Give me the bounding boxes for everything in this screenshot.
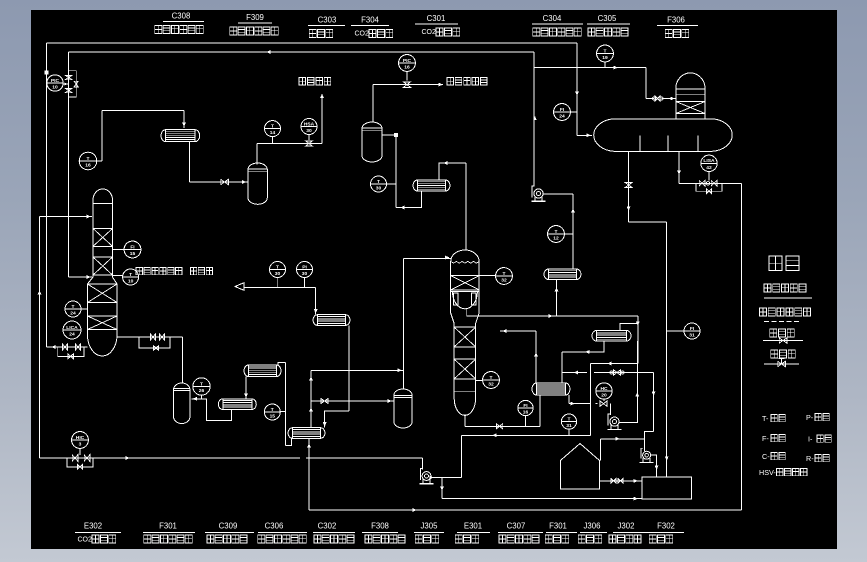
- label F304: [351, 15, 393, 37]
- instrument T-14: [265, 121, 281, 144]
- valve HC-20: [598, 401, 611, 406]
- wire drum drain right: [677, 151, 741, 193]
- svg-text:FI: FI: [523, 403, 528, 409]
- wire to pump J306: [610, 404, 612, 415]
- instrument PIC-10: [47, 75, 69, 91]
- svg-text:24: 24: [69, 332, 75, 338]
- instrument PIC-16: [399, 55, 416, 81]
- vessel F309: [248, 163, 267, 204]
- column E301 packing X2: [454, 327, 475, 347]
- label F301: [143, 521, 195, 543]
- wire E302 overhead: [102, 111, 186, 162]
- instrument FI-15: [113, 241, 141, 258]
- wire E301 feed: [404, 256, 451, 260]
- label E302: [75, 521, 121, 543]
- svg-text:E302: E302: [84, 521, 102, 530]
- instrument T-12: [548, 226, 573, 243]
- wire C302 inlet: [309, 370, 313, 427]
- svg-text:30: 30: [275, 271, 281, 277]
- svg-text:24: 24: [70, 311, 76, 317]
- svg-text:C305: C305: [598, 14, 617, 23]
- svg-text:J302: J302: [618, 521, 635, 530]
- wire C307 out: [569, 395, 598, 405]
- svg-text:12: 12: [553, 236, 559, 242]
- svg-text:3: 3: [79, 442, 82, 448]
- tank F302: [642, 477, 692, 499]
- column E302 packing X4: [88, 316, 118, 330]
- legend C-ctrl: [762, 452, 785, 461]
- instrument T-30b: [270, 262, 286, 288]
- svg-text:C308: C308: [172, 11, 191, 20]
- wire C305x drain: [562, 341, 604, 383]
- wire E302 rich solution: [117, 334, 182, 383]
- wire J302 discharge: [651, 455, 659, 477]
- wire J306 discharge: [619, 341, 639, 422]
- instrument T-30: [371, 176, 397, 192]
- label C304: [532, 14, 583, 36]
- svg-text:PI: PI: [302, 264, 307, 270]
- wire drum drain left: [625, 151, 669, 477]
- svg-text:F302: F302: [657, 521, 675, 530]
- pump J302: [640, 448, 654, 462]
- column F306 top: [676, 73, 705, 119]
- wire E301 bottoms stem: [464, 414, 466, 426]
- wire JA discharge: [543, 194, 575, 269]
- label F301: [545, 521, 577, 543]
- legend HSV: [759, 468, 807, 477]
- svg-text:T: T: [72, 304, 75, 310]
- svg-text:R-: R-: [806, 454, 814, 463]
- svg-text:42: 42: [706, 165, 712, 171]
- wire to vessel side: [311, 399, 394, 404]
- wire top header 1: [47, 42, 577, 44]
- wire flash top feed: [646, 68, 676, 102]
- wire J302 feed: [644, 439, 646, 451]
- wire E302 bottoms valves: [47, 344, 88, 359]
- svg-text:CO2: CO2: [354, 31, 369, 38]
- svg-text:T: T: [200, 381, 203, 387]
- svg-text:31: 31: [689, 333, 695, 339]
- svg-text:T: T: [604, 48, 607, 54]
- svg-text:P-: P-: [806, 413, 814, 422]
- column E302 packing X3: [88, 284, 118, 303]
- wire V3 stem: [403, 259, 405, 390]
- column E301 tray head: [451, 292, 479, 309]
- svg-text:C306: C306: [265, 521, 284, 530]
- svg-text:15: 15: [270, 414, 276, 420]
- wire bottom main: [40, 455, 423, 469]
- legend P-press: [806, 413, 829, 422]
- label C305: [587, 14, 630, 36]
- svg-text:30: 30: [376, 186, 382, 192]
- pump J306: [608, 414, 622, 429]
- svg-text:16: 16: [523, 410, 529, 416]
- svg-text:C301: C301: [427, 14, 446, 23]
- instrument T-24: [65, 301, 88, 317]
- exchanger C303: [313, 315, 350, 326]
- svg-text:T: T: [568, 416, 571, 422]
- column E301 line: [454, 390, 475, 392]
- svg-text:T: T: [129, 272, 132, 278]
- exchanger C308: [161, 130, 200, 142]
- svg-text:FI: FI: [690, 326, 695, 332]
- exchanger C305x: [592, 330, 631, 341]
- svg-text:32: 32: [488, 382, 494, 388]
- wire purge header: [235, 283, 318, 315]
- label E301: [455, 521, 490, 543]
- label F306: [657, 15, 698, 37]
- svg-text:30: 30: [306, 128, 312, 134]
- svg-text:HC: HC: [600, 386, 608, 392]
- drum F306: [594, 119, 733, 152]
- svg-text:T: T: [271, 407, 274, 413]
- wire house vent: [600, 437, 644, 460]
- svg-text:LISA: LISA: [703, 158, 715, 164]
- exchanger C301: [413, 180, 450, 191]
- svg-text:T: T: [276, 264, 279, 270]
- svg-text:31: 31: [566, 423, 572, 429]
- svg-text:HIC: HIC: [76, 435, 85, 441]
- svg-text:FI: FI: [560, 107, 565, 113]
- label C309: [205, 521, 254, 543]
- svg-text:HSA: HSA: [304, 121, 315, 127]
- svg-text:F308: F308: [371, 521, 389, 530]
- wire left line 2 down: [68, 52, 70, 277]
- wire reflux return: [500, 329, 538, 383]
- svg-text:C307: C307: [507, 521, 526, 530]
- wire flash feed: [575, 43, 592, 137]
- svg-text:C303: C303: [318, 15, 337, 24]
- svg-text:26: 26: [199, 388, 205, 394]
- svg-text:I-: I-: [808, 434, 813, 443]
- wire house drain: [599, 479, 641, 484]
- wire C303 drain: [323, 325, 349, 427]
- svg-text:E301: E301: [464, 521, 482, 530]
- instrument FI-31: [667, 323, 700, 339]
- svg-text:30: 30: [302, 271, 308, 277]
- instrument T-32b: [476, 372, 500, 389]
- wire to vessel top: [311, 368, 404, 372]
- svg-text:T: T: [377, 179, 380, 185]
- wire F301 drain jog: [191, 397, 231, 421]
- wire to methanation: [257, 94, 324, 165]
- exchanger C307: [532, 383, 570, 395]
- wire pump JA suction: [533, 52, 536, 187]
- label J302: [609, 521, 645, 543]
- legend T-temp: [762, 414, 785, 423]
- column E302 top dome: [93, 189, 113, 277]
- exchanger C306: [244, 365, 281, 377]
- svg-text:T-: T-: [762, 414, 769, 423]
- svg-text:10: 10: [128, 279, 134, 285]
- wire big loop right: [741, 183, 743, 510]
- exchanger C304x: [544, 269, 581, 280]
- label C302: [313, 521, 355, 543]
- label C301: [415, 14, 460, 36]
- legend title: [769, 256, 799, 271]
- instrument T-19: [597, 45, 614, 68]
- wire C308 drain: [189, 142, 191, 182]
- column E301 packing X1: [451, 276, 479, 290]
- vessel F-mid: [394, 389, 412, 428]
- svg-text:10: 10: [52, 85, 58, 91]
- instrument T-15: [264, 404, 285, 420]
- wire solution return: [462, 433, 591, 437]
- svg-text:CO2: CO2: [421, 29, 436, 36]
- column E301 flare: [451, 313, 479, 324]
- instrument FI-16: [518, 400, 533, 426]
- column E301 packing X3: [454, 359, 475, 379]
- column E302 wide walls: [88, 284, 118, 335]
- column E301 dome: [451, 250, 479, 313]
- exchanger C309: [218, 399, 256, 410]
- svg-text:C304: C304: [543, 14, 562, 23]
- svg-text:20: 20: [601, 393, 607, 399]
- svg-text:CO2: CO2: [77, 536, 92, 543]
- wire urea synthesis: [373, 82, 443, 122]
- wire steam down: [590, 316, 639, 435]
- instrument LICA-24: [63, 321, 81, 339]
- svg-text:32: 32: [501, 278, 507, 284]
- label C307: [498, 521, 543, 543]
- instrument LISA-42: [701, 155, 717, 180]
- legend I-ind: [808, 434, 831, 443]
- instrument T-26: [193, 378, 210, 399]
- svg-text:T: T: [87, 156, 90, 162]
- svg-text:J305: J305: [421, 521, 439, 530]
- svg-text:PIC: PIC: [403, 58, 412, 64]
- label feedwater note: [136, 268, 212, 275]
- column E302 flare: [88, 277, 118, 284]
- pump J305a: [532, 186, 546, 201]
- wire J305 discharge: [430, 435, 462, 498]
- wire C307 feed: [539, 395, 541, 426]
- legend F-flow: [762, 434, 785, 443]
- pump J305: [420, 469, 434, 484]
- exchanger C302: [288, 428, 325, 439]
- svg-text:F309: F309: [246, 13, 264, 22]
- wire E301 overhead: [439, 161, 466, 249]
- label C303: [308, 15, 345, 37]
- label J305: [414, 521, 444, 543]
- svg-text:T: T: [503, 271, 506, 277]
- svg-text:LICA: LICA: [66, 325, 78, 331]
- wire lean down: [645, 373, 656, 452]
- svg-text:PIC: PIC: [51, 78, 60, 84]
- label F308: [362, 521, 405, 543]
- wire C302 drain: [307, 438, 311, 510]
- wire semi-lean header: [467, 308, 638, 318]
- instrument FI-24: [554, 104, 577, 121]
- svg-text:T: T: [555, 229, 558, 235]
- wire left main down: [46, 43, 48, 347]
- wire C304x out: [555, 280, 559, 317]
- svg-text:T: T: [271, 123, 274, 129]
- instrument PI-30: [297, 262, 313, 288]
- legend stop valve: [763, 329, 803, 343]
- column E301 lower walls: [454, 324, 475, 399]
- wire E301 bottoms line: [465, 424, 540, 429]
- svg-text:FI: FI: [130, 244, 135, 250]
- wire feedwater to column: [69, 275, 92, 279]
- legend main line: [764, 284, 812, 298]
- label C308: [155, 11, 204, 33]
- column E302 bottom head: [88, 335, 118, 356]
- svg-text:15: 15: [130, 251, 136, 257]
- legend aux line: [759, 308, 810, 322]
- vessel F301: [174, 383, 191, 424]
- column E302 packing X1: [93, 229, 113, 247]
- junction dot: [45, 71, 49, 75]
- valve bypass loop PIC10: [69, 71, 79, 97]
- svg-text:19: 19: [602, 55, 608, 61]
- label F302: [645, 521, 684, 543]
- svg-text:16: 16: [404, 65, 410, 71]
- wire C305x top: [620, 323, 638, 330]
- svg-text:F-: F-: [762, 434, 769, 443]
- wire C306 to C309: [244, 377, 248, 399]
- column E302 packing X2: [93, 257, 113, 275]
- svg-text:F301: F301: [549, 521, 567, 530]
- valve on left line 2 b: [65, 88, 72, 92]
- label F309: [230, 13, 279, 35]
- wire big loop bottom: [309, 508, 742, 512]
- valve on left line 2 a: [65, 75, 72, 79]
- svg-text:T: T: [490, 375, 493, 381]
- svg-text:F304: F304: [361, 15, 379, 24]
- svg-text:24: 24: [559, 114, 565, 120]
- instrument T-16: [79, 152, 102, 170]
- tank house F301: [561, 444, 600, 490]
- svg-text:F306: F306: [667, 15, 685, 24]
- legend control valve: [764, 350, 799, 367]
- instrument T-10: [113, 269, 139, 285]
- svg-text:F301: F301: [159, 521, 177, 530]
- label C306: [258, 521, 307, 543]
- wire hdr2 branch: [534, 66, 646, 70]
- wire C306 top loop: [278, 363, 292, 446]
- label methanation: [299, 78, 331, 85]
- svg-text:C-: C-: [762, 452, 770, 461]
- wire feedwater main: [38, 215, 92, 458]
- wire underground line: [442, 497, 642, 501]
- column E301 bottom head: [454, 398, 475, 415]
- svg-text:C302: C302: [318, 521, 337, 530]
- wire top header 2: [69, 50, 534, 54]
- label J306: [578, 521, 607, 543]
- svg-text:HSV-: HSV-: [759, 468, 776, 477]
- wire to F309 vessel: [190, 179, 248, 184]
- wire lean bypass: [562, 370, 654, 375]
- svg-text:C309: C309: [219, 521, 238, 530]
- instrument T-32a: [479, 268, 512, 285]
- instrument HC-20: [596, 383, 612, 401]
- instrument T-31: [561, 414, 576, 435]
- vessel F304: [362, 122, 382, 162]
- instrument HSA-30: [301, 119, 317, 141]
- svg-text:J306: J306: [584, 521, 601, 530]
- legend R-rec: [806, 454, 829, 463]
- instrument HIC-3: [72, 432, 89, 455]
- svg-text:16: 16: [85, 163, 91, 169]
- wire F304 vapor: [382, 133, 422, 209]
- wire J305 suction: [421, 458, 423, 470]
- label urea: [447, 78, 487, 85]
- svg-text:14: 14: [270, 130, 276, 136]
